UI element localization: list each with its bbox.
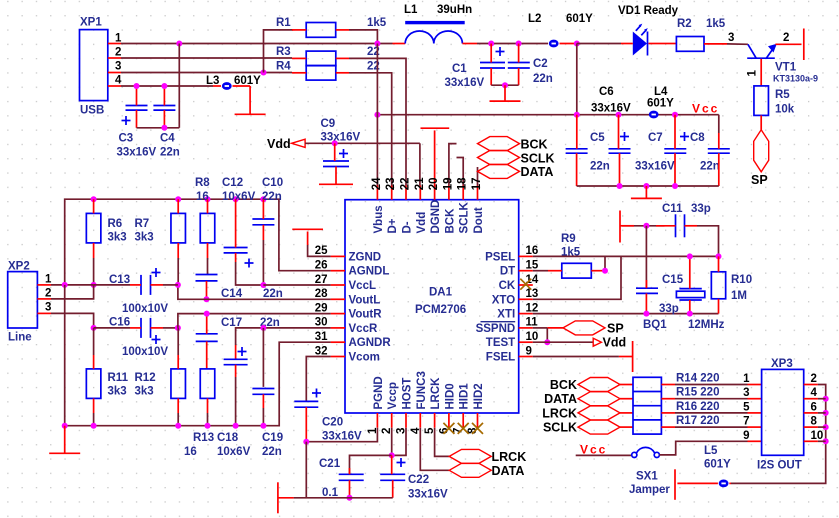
wire L1 to L2 segment	[462, 43, 548, 45]
port DATA out	[544, 392, 620, 407]
port DATA bottom	[449, 463, 524, 478]
resistor R7	[135, 213, 186, 243]
svg-text:VoutR: VoutR	[349, 309, 383, 321]
svg-text:LRCK: LRCK	[430, 377, 442, 410]
wire to IC pin 27	[263, 284, 330, 286]
node C15 bottom	[643, 311, 649, 317]
svg-text:22n: 22n	[590, 161, 610, 173]
node rail to pin24	[374, 112, 380, 118]
svg-text:C20: C20	[322, 417, 343, 429]
node bus pin4	[823, 396, 829, 402]
C8 top lead	[718, 133, 720, 149]
svg-text:3: 3	[45, 302, 51, 314]
svg-text:PCM2706: PCM2706	[415, 304, 466, 316]
svg-text:22: 22	[400, 178, 412, 191]
svg-text:XTO: XTO	[492, 294, 515, 306]
R13 bottom lead	[207, 398, 209, 425]
svg-text:22n: 22n	[262, 446, 282, 458]
XP1 pin 3 lead	[108, 72, 121, 74]
resistor R4	[276, 61, 380, 81]
node C16 right junction	[175, 325, 181, 331]
svg-text:FUNC3: FUNC3	[416, 371, 428, 409]
svg-text:Line: Line	[8, 332, 32, 344]
IC pin name D-	[402, 221, 414, 233]
C7 top lead	[674, 115, 676, 149]
R7 top lead	[177, 199, 179, 213]
svg-text:Jamper: Jamper	[629, 484, 670, 496]
XP3 pin4 stub	[804, 387, 818, 399]
IC right pin 10 lead	[519, 341, 533, 343]
IC pin name BCK	[444, 208, 456, 234]
C17 bottom lead to R13	[206, 341, 208, 369]
wire C20 node down to gnd rail	[305, 442, 307, 498]
svg-text:L4: L4	[654, 86, 668, 98]
svg-text:FSEL: FSEL	[486, 352, 515, 364]
wire VBUS down to rail	[576, 44, 578, 115]
svg-text:CK: CK	[499, 280, 516, 292]
op-amp U1 IC DA1 PCM2706 body	[345, 200, 519, 413]
wire bottom AGND rail	[65, 285, 331, 426]
inductor L4 ferrite bead	[647, 86, 674, 118]
svg-text:11: 11	[526, 317, 539, 329]
node C7 bottom	[672, 183, 678, 189]
svg-text:29: 29	[315, 302, 328, 314]
svg-text:L1: L1	[404, 4, 418, 16]
svg-text:23: 23	[385, 178, 397, 191]
C2 top lead	[518, 44, 520, 63]
node C15 column top	[643, 223, 649, 229]
IC top pin 17 lead	[477, 186, 479, 200]
L1 left lead	[393, 43, 406, 45]
node Vccp junction	[389, 452, 395, 458]
svg-text:Vccp: Vccp	[387, 382, 399, 410]
node R13 bottom	[205, 423, 211, 429]
svg-text:C22: C22	[408, 474, 429, 486]
IC right pin number 10	[526, 331, 539, 343]
svg-text:C1: C1	[452, 63, 467, 75]
IC top pin 24 lead	[376, 186, 378, 200]
svg-text:C14: C14	[221, 288, 243, 300]
node C11-R10 junction	[716, 253, 722, 259]
node junction XP1 pin1 / C3C4 branch	[176, 41, 182, 47]
C3 bottom lead	[136, 110, 138, 128]
svg-text:Dout: Dout	[473, 207, 485, 233]
IC bottom pin number 8	[467, 427, 479, 434]
C6 bottom lead	[619, 153, 621, 186]
IC pin name VoutL	[349, 294, 381, 306]
IC left pin 29 lead	[331, 313, 345, 315]
label R15 220	[676, 387, 719, 399]
inductor L1	[404, 4, 472, 44]
svg-text:BCK: BCK	[444, 208, 456, 234]
svg-text:LRCK: LRCK	[542, 406, 577, 420]
R15 right lead	[661, 398, 747, 400]
IC right pin 12 lead	[519, 313, 533, 315]
svg-text:R12: R12	[135, 372, 156, 384]
capacitor C19	[252, 389, 283, 459]
LRCK port lead to resistor	[620, 412, 633, 414]
svg-text:C10: C10	[262, 177, 283, 189]
svg-text:SX1: SX1	[636, 471, 658, 483]
wire PGND pin1 to C20 branch	[306, 428, 377, 442]
IC bottom pin 4 lead	[419, 413, 421, 428]
IC bottom pin number 7	[453, 428, 465, 434]
C11 left lead	[656, 225, 676, 227]
IC right pin number 14	[526, 274, 539, 286]
IC left pin 27 lead	[331, 284, 345, 286]
C22 top lead	[391, 455, 393, 474]
svg-text:PSEL: PSEL	[485, 251, 515, 263]
capacitor C18	[217, 347, 251, 458]
IC pin name FUNC3	[416, 371, 428, 409]
svg-text:19: 19	[442, 178, 454, 191]
IC pin name HID1	[459, 383, 471, 410]
svg-text:SCLK: SCLK	[459, 202, 471, 234]
svg-text:601Y: 601Y	[704, 459, 731, 471]
svg-text:AGNDL: AGNDL	[349, 266, 390, 278]
svg-text:R17 220: R17 220	[676, 415, 719, 427]
svg-text:17: 17	[471, 178, 483, 191]
svg-text:601Y: 601Y	[647, 98, 674, 110]
C16 left lead	[94, 327, 141, 329]
IC top pin 19 lead	[448, 186, 450, 200]
resistor R6	[86, 213, 126, 243]
IC left pin number 25	[315, 245, 328, 257]
jumper SX1	[629, 447, 670, 496]
svg-text:R4: R4	[276, 61, 291, 73]
node C6 top	[616, 112, 622, 118]
svg-text:USB: USB	[80, 105, 104, 117]
wire LRCK from pin5	[435, 428, 450, 457]
port BCK out	[550, 378, 620, 393]
XP1 pin 1 number	[115, 33, 122, 45]
svg-text:HID1: HID1	[459, 383, 471, 410]
svg-text:R15 220: R15 220	[676, 387, 719, 399]
wire branch down to C3/C4 bottom rail	[178, 44, 180, 128]
capacitor C10	[252, 177, 283, 225]
wire TEST pin10 to Vdd	[533, 341, 593, 343]
wire R4 to IC pin23 (D+)	[349, 73, 392, 186]
node gnd stem junction	[62, 423, 68, 429]
ground after L3	[235, 86, 266, 114]
C19 bottom lead	[262, 394, 264, 425]
svg-text:C21: C21	[319, 458, 341, 470]
svg-text:33x16V: 33x16V	[635, 161, 675, 173]
wire C21 top branch	[350, 455, 392, 474]
node R1 to VBUS junction	[374, 41, 380, 47]
resistor R3	[276, 46, 380, 66]
XP1 pin 2 lead	[108, 57, 121, 59]
C14 bottom lead	[206, 281, 208, 299]
crystal BQ1	[643, 289, 725, 331]
SSPND overline	[481, 321, 516, 323]
svg-text:1: 1	[743, 373, 750, 385]
svg-text:25: 25	[315, 245, 328, 257]
svg-text:R2: R2	[677, 18, 692, 30]
svg-text:10: 10	[811, 430, 824, 442]
wire VccR pin30 row	[236, 328, 331, 359]
ground left rail	[49, 426, 80, 454]
node bus pin10	[823, 438, 829, 444]
capacitor C4	[153, 106, 179, 159]
svg-text:3: 3	[728, 32, 734, 44]
capacitor C16	[109, 317, 168, 359]
svg-text:C7: C7	[648, 132, 663, 144]
node C10 top	[260, 196, 266, 202]
capacitor C15	[636, 274, 684, 315]
no-connect X pin 6	[443, 423, 454, 434]
resistor network R14-R17	[633, 377, 661, 434]
svg-text:D+: D+	[387, 218, 399, 233]
IC right pin 13 lead	[519, 298, 533, 300]
IC right pin 15 lead	[519, 270, 533, 272]
IC left pin 30 lead	[331, 327, 345, 329]
wire BCK from pin19	[449, 144, 457, 186]
wire XP2 pin2 up to C13 node	[51, 285, 94, 299]
IC left pin number 26	[315, 260, 328, 272]
svg-text:32: 32	[315, 345, 328, 357]
capacitor C20	[294, 389, 362, 443]
svg-text:C16: C16	[109, 317, 130, 329]
IC pin name Vbus	[373, 205, 385, 233]
svg-text:601Y: 601Y	[566, 13, 593, 25]
C3 top lead	[136, 86, 138, 106]
wire XP2 pin3 to C16 node	[51, 313, 94, 328]
ground C11 left	[620, 211, 634, 243]
wire C19 top branch	[262, 328, 264, 387]
ground ZGND above pin25	[292, 229, 330, 256]
IC right pin number 12	[526, 302, 539, 314]
IC left pin number 29	[315, 302, 328, 314]
node C1 top	[488, 41, 494, 47]
R10 top lead	[718, 256, 720, 271]
svg-text:C6: C6	[599, 86, 614, 98]
svg-text:39uHn: 39uHn	[437, 4, 472, 16]
IC pin name TEST	[486, 337, 515, 349]
IC right pin number 16	[526, 245, 539, 257]
svg-text:1: 1	[747, 70, 759, 77]
no-connect X pin 7	[458, 423, 469, 434]
R5 bottom lead	[760, 115, 762, 129]
C9 ground	[319, 167, 353, 185]
wire GND from XP1 pin4 to L3	[121, 85, 213, 87]
net label Vcc top	[692, 102, 719, 116]
svg-text:10x6V: 10x6V	[222, 191, 256, 203]
svg-text:2: 2	[783, 32, 789, 44]
resistor R8	[195, 177, 215, 243]
wire XP3 right bus	[731, 385, 826, 484]
svg-text:Vbus: Vbus	[373, 205, 385, 233]
IC pin name AGNDR	[349, 337, 392, 349]
svg-text:1k5: 1k5	[706, 18, 726, 30]
IC pin name SSPND	[476, 323, 516, 335]
wire pin6 to bus	[818, 412, 826, 414]
node TEST junction	[544, 339, 550, 345]
wire pin4 to bus	[818, 398, 826, 400]
svg-text:3k3: 3k3	[135, 232, 154, 244]
IC pin name VccL	[349, 280, 377, 292]
svg-text:7: 7	[743, 416, 749, 428]
IC top pin 22 lead	[405, 186, 407, 200]
node C2 top	[516, 41, 522, 47]
net label Vcc bottom	[580, 443, 607, 457]
svg-text:HOST: HOST	[402, 378, 414, 410]
C22 bottom lead	[392, 480, 394, 498]
svg-text:XP2: XP2	[8, 261, 30, 273]
IC top pin 21 lead	[419, 186, 421, 200]
VT1 pin 2 wire to bar	[775, 32, 801, 44]
node R11 bottom	[91, 423, 97, 429]
svg-text:SP: SP	[607, 322, 624, 336]
L3 leads	[213, 85, 250, 87]
svg-text:24: 24	[371, 177, 383, 190]
svg-text:L2: L2	[528, 13, 541, 25]
wire AGND top rail	[65, 199, 331, 285]
IC bottom pin number 2	[381, 428, 393, 434]
svg-text:HID0: HID0	[444, 383, 456, 409]
C20 bottom lead	[305, 407, 307, 442]
node R7/C13 junction	[175, 282, 181, 288]
wire R3 to IC pin22 (D-)	[349, 58, 406, 185]
wire Vcc to jumper	[576, 454, 632, 456]
svg-text:6: 6	[811, 401, 817, 413]
IC pin name D+	[387, 218, 399, 233]
svg-text:22n: 22n	[262, 191, 282, 203]
IC pin name Vdd	[416, 212, 428, 234]
svg-text:Vdd: Vdd	[267, 137, 291, 151]
IC bottom pin 2 lead	[391, 413, 393, 428]
svg-text:VccL: VccL	[349, 280, 377, 292]
svg-text:Vcc: Vcc	[580, 443, 607, 457]
svg-text:9: 9	[526, 345, 532, 357]
svg-text:C12: C12	[222, 177, 243, 189]
svg-text:3k3: 3k3	[108, 386, 127, 398]
node C10 bottom on pin27 wire	[260, 282, 266, 288]
IC right pin 16 lead	[519, 255, 533, 257]
wire VoutR pin29 row	[178, 314, 331, 328]
C21 bottom lead	[349, 480, 351, 498]
svg-text:BCK: BCK	[550, 378, 577, 392]
node C6 bottom	[617, 183, 623, 189]
svg-text:DATA: DATA	[492, 464, 525, 478]
wire pin10 to bus	[818, 440, 826, 442]
wire pin3 HOST down	[392, 428, 406, 456]
svg-text:33x16V: 33x16V	[445, 77, 485, 89]
VT1 pin1 lead to R5	[747, 59, 762, 86]
port DATA	[478, 164, 554, 179]
wire jumper to XP3 pin9	[659, 441, 747, 455]
svg-text:R11: R11	[108, 372, 129, 384]
port SCLK	[478, 151, 555, 166]
capacitor C11	[662, 203, 711, 237]
svg-text:5: 5	[743, 401, 750, 413]
svg-text:Vcc: Vcc	[692, 102, 719, 116]
VT1 base pin number 3	[728, 32, 734, 44]
svg-text:22n: 22n	[263, 288, 283, 300]
node R12 bottom	[175, 423, 181, 429]
node C21 bottom	[347, 495, 353, 501]
svg-text:2: 2	[811, 373, 817, 385]
ground bottom rail	[278, 482, 294, 513]
IC top pin number 22	[400, 178, 412, 191]
svg-text:VccR: VccR	[349, 323, 378, 335]
svg-text:33p: 33p	[691, 203, 711, 215]
capacitor C14	[196, 275, 283, 301]
IC pin name DGND	[430, 200, 442, 234]
IC bottom pin 3 lead	[405, 413, 407, 428]
wire 5V rail	[377, 114, 718, 116]
svg-text:10x6V: 10x6V	[217, 446, 251, 458]
svg-text:3: 3	[115, 61, 121, 73]
svg-text:VoutL: VoutL	[349, 294, 381, 306]
svg-text:16: 16	[526, 245, 539, 257]
svg-text:R8: R8	[195, 177, 210, 189]
BQ1 bottom lead	[689, 300, 691, 314]
IC pin name Vcom	[349, 352, 380, 364]
C7 bottom lead	[674, 153, 676, 186]
svg-text:Vcom: Vcom	[349, 352, 380, 364]
node C19 top junction	[260, 325, 266, 331]
IC right pin number 13	[526, 288, 539, 300]
svg-text:R14 220: R14 220	[676, 373, 719, 385]
IC left pin 32 lead	[331, 356, 345, 358]
svg-text:DT: DT	[500, 266, 515, 278]
R17 right lead	[661, 426, 747, 428]
port SCLK out	[543, 420, 620, 435]
ground DGND above pin 20	[421, 128, 450, 185]
svg-text:DATA: DATA	[544, 392, 577, 406]
ground I2S	[674, 469, 676, 500]
wire D- from XP1 pin2 to R3	[121, 57, 292, 59]
svg-text:22n: 22n	[700, 161, 720, 173]
IC pin name VoutR	[349, 309, 383, 321]
svg-text:C3: C3	[119, 133, 134, 145]
R1 right lead and wire to VBUS	[336, 30, 378, 44]
node C12 top	[233, 196, 239, 202]
wire PSEL row to XTO	[533, 256, 621, 299]
IC top pin 20 lead	[434, 186, 436, 200]
C5 top lead	[576, 115, 578, 149]
svg-text:26: 26	[315, 260, 328, 272]
IC pin name VccR	[349, 323, 378, 335]
node bus pin6	[823, 410, 829, 416]
C2 bottom lead	[518, 68, 520, 85]
R9 left lead	[533, 270, 562, 272]
capacitor C12	[222, 177, 256, 268]
svg-text:ZGND: ZGND	[349, 251, 382, 263]
svg-text:33x16V: 33x16V	[117, 147, 157, 159]
no-connect X pin 8	[472, 423, 483, 434]
XP3 pin7 stub	[743, 416, 762, 428]
wire D+ from XP1 pin3 to R4	[121, 72, 292, 74]
capacitor C7	[635, 132, 689, 173]
wire C1/C2 bottom	[491, 84, 518, 86]
node C1C2 ground junction	[502, 82, 508, 88]
svg-text:DGND: DGND	[430, 200, 442, 234]
C9 top lead	[334, 143, 336, 161]
R6 bottom lead	[93, 243, 95, 285]
R12 bottom lead	[177, 398, 179, 425]
wire SCLK from pin18	[457, 158, 464, 186]
R4 left lead	[292, 72, 306, 74]
svg-text:13: 13	[526, 288, 539, 300]
C10 top lead	[262, 199, 264, 219]
C6 top lead	[618, 115, 620, 149]
R10 bottom lead	[718, 299, 720, 314]
C15 top lead	[645, 280, 647, 288]
IC bottom pin number 1	[367, 427, 379, 434]
wire SSPND to TEST tie	[546, 328, 548, 342]
